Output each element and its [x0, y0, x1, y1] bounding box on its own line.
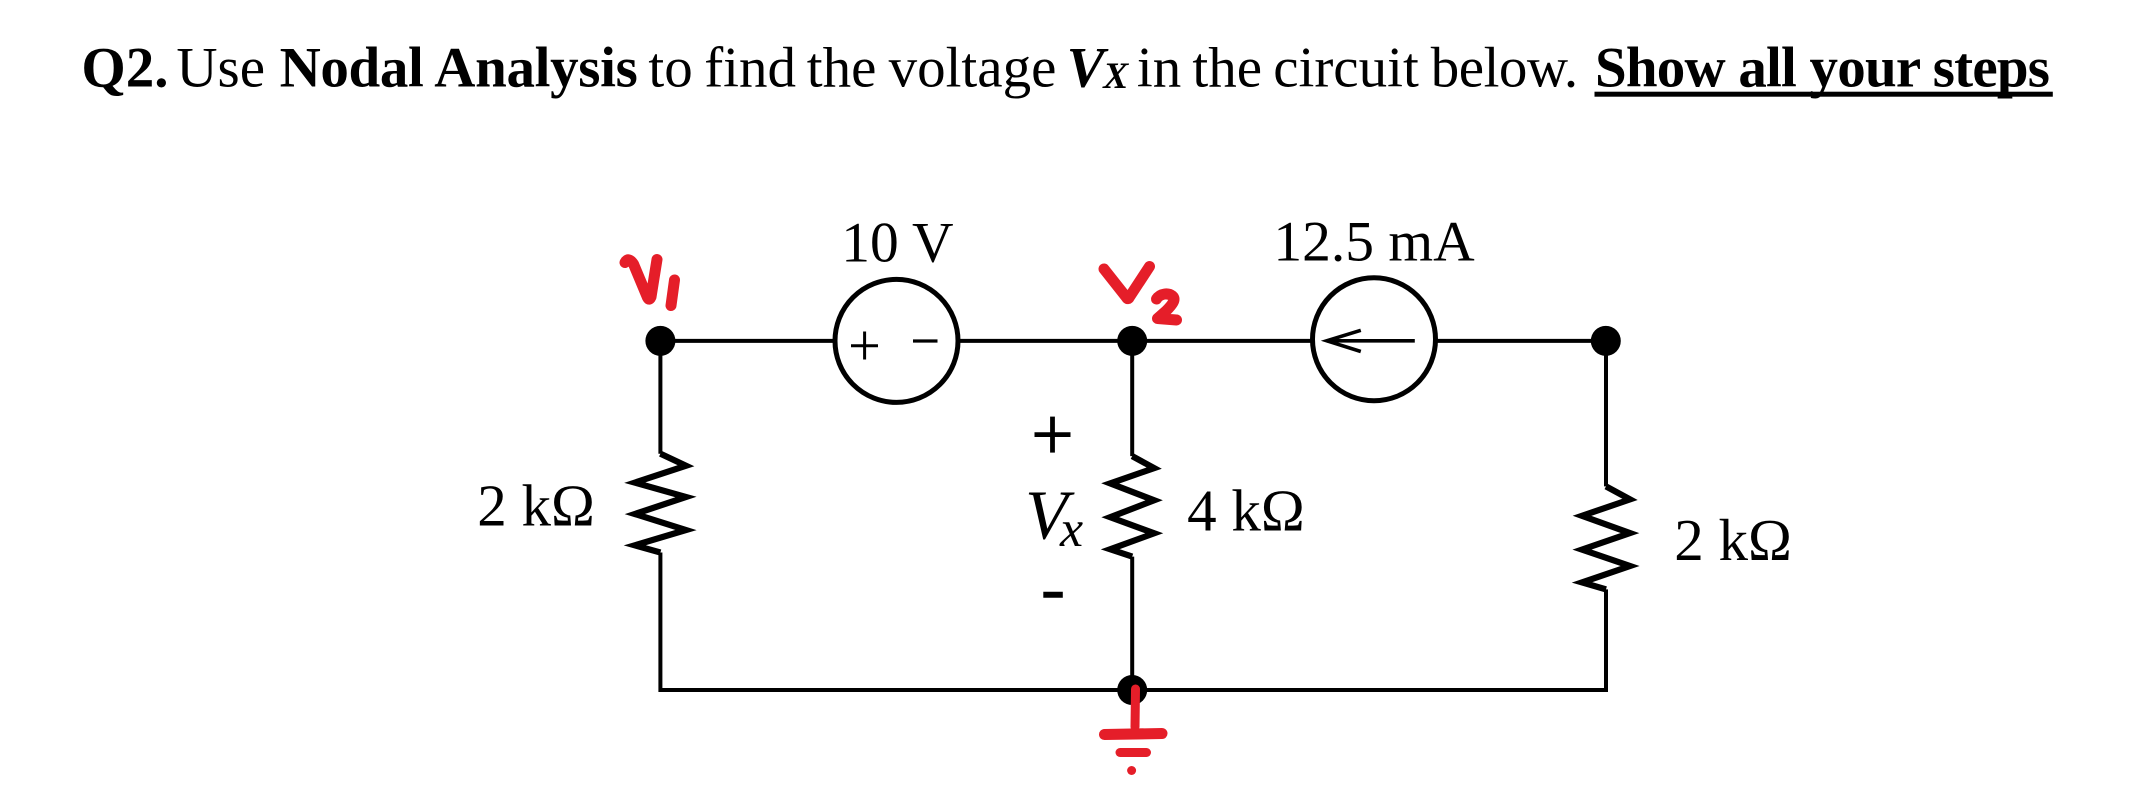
wire: middle branch vertical lower	[1130, 557, 1134, 690]
svg-text:10 V: 10 V	[841, 212, 953, 275]
svg-text:Use: Use	[176, 37, 265, 100]
svg-text:in: in	[1137, 37, 1181, 100]
svg-text:find: find	[704, 37, 796, 100]
Vx minus sign	[1043, 592, 1063, 598]
svg-text:below.: below.	[1431, 37, 1578, 100]
ground dot (red)	[1127, 766, 1136, 775]
svg-text:12.5 mA: 12.5 mA	[1273, 211, 1475, 274]
resistor 2k left zigzag	[635, 454, 686, 553]
title: question text	[81, 37, 2052, 100]
node right dot	[1591, 326, 1621, 356]
svg-text:Q2.: Q2.	[81, 37, 168, 100]
svg-text:circuit: circuit	[1273, 37, 1419, 100]
resistor 4k middle zigzag	[1110, 456, 1154, 556]
node ground dot	[1117, 675, 1147, 705]
ground symbol (red handwriting)	[1105, 689, 1163, 753]
svg-text:2 kΩ: 2 kΩ	[1674, 507, 1792, 573]
node V2 dot	[1117, 326, 1147, 356]
svg-text:4 kΩ: 4 kΩ	[1187, 478, 1305, 544]
wire: top horizontal from node V1 to right node	[660, 339, 1606, 343]
node V1 dot	[645, 326, 675, 356]
wire: bottom U (left lower, bottom, right lower)	[660, 553, 1606, 691]
svg-text:x: x	[1059, 501, 1083, 558]
resistor 2k right zigzag	[1582, 486, 1630, 589]
svg-text:to: to	[648, 37, 692, 100]
current source arrow	[1327, 330, 1415, 351]
svg-text:the: the	[807, 37, 877, 100]
voltage source plus sign	[851, 332, 878, 360]
voltage source 10 V circle	[835, 279, 958, 402]
svg-text:X: X	[1102, 56, 1129, 97]
voltage source minus sign	[913, 339, 938, 342]
svg-text:Show all your steps: Show all your steps	[1595, 37, 2049, 100]
title underline	[1595, 92, 2053, 97]
svg-text:V: V	[1067, 37, 1109, 100]
wire: left branch vertical upper	[658, 341, 662, 454]
wire: middle branch vertical upper	[1130, 341, 1134, 456]
node label V2 (red handwriting)	[1104, 267, 1177, 321]
svg-text:2 kΩ: 2 kΩ	[477, 473, 595, 539]
node label V1 (red handwriting)	[625, 260, 675, 306]
Vx plus sign	[1035, 417, 1071, 453]
current source 12.5 mA circle	[1313, 278, 1436, 401]
wire: right branch vertical upper	[1604, 341, 1608, 487]
svg-text:voltage: voltage	[889, 37, 1057, 100]
svg-text:Nodal Analysis: Nodal Analysis	[280, 37, 638, 100]
svg-text:the: the	[1192, 37, 1262, 100]
